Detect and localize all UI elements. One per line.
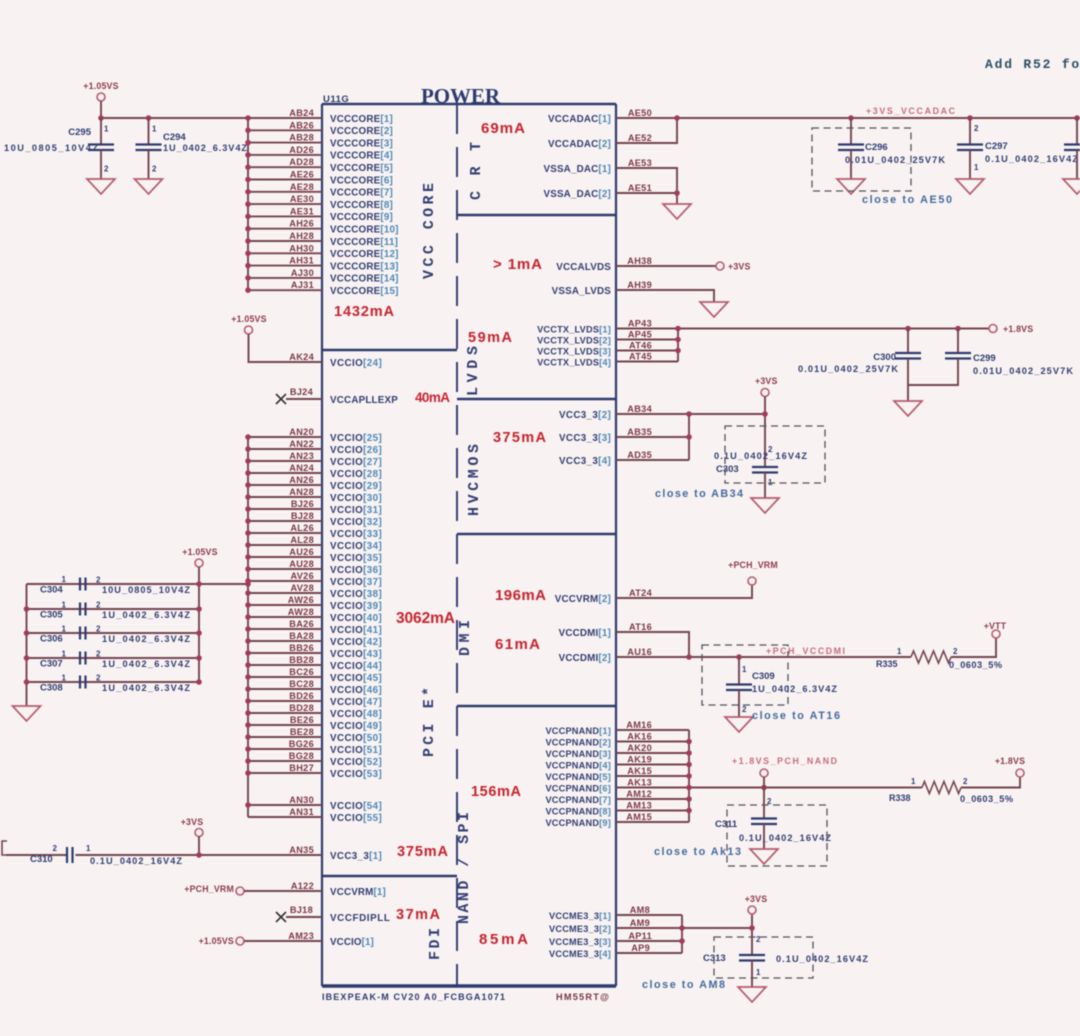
svg-text:2: 2 [53,844,58,853]
svg-text:1: 1 [756,968,761,977]
svg-text:> 1mA: > 1mA [493,256,542,273]
svg-text:VCCCORE[13]: VCCCORE[13] [330,261,399,272]
svg-text:LVDS: LVDS [465,346,482,396]
svg-text:BE28: BE28 [290,727,314,737]
svg-text:1: 1 [62,674,67,683]
svg-text:VCCADAC[1]: VCCADAC[1] [548,114,611,125]
svg-text:VCC CORE: VCC CORE [421,183,438,279]
capacitor C296 [838,118,945,179]
svg-text:BB26: BB26 [289,643,314,653]
wire net +1.8VS_PCH_NAND [616,730,1020,822]
svg-text:BA26: BA26 [289,619,314,629]
svg-text:0.1U_0402_16V4Z: 0.1U_0402_16V4Z [985,154,1078,164]
power +PCH_VRM (VCCVRM2) [728,560,778,585]
svg-text:VCCIO[46]: VCCIO[46] [330,685,382,696]
svg-text:VCCIO[29]: VCCIO[29] [330,481,382,492]
svg-text:AE50: AE50 [628,108,652,118]
power +3VS (HVCMOS) [755,376,778,397]
note close to AB34 [655,488,743,500]
svg-text:2: 2 [96,674,101,683]
wire VSSA_LVDS to ground [616,290,714,302]
U11G pins VCCIO[25..55] [330,433,382,824]
svg-text:0.1U_0402_16V4Z: 0.1U_0402_16V4Z [714,451,807,461]
svg-text:+1.8VS: +1.8VS [995,756,1025,766]
pin name AE51 [628,183,652,193]
svg-text:AH30: AH30 [289,243,314,253]
svg-text:AH38: AH38 [627,256,652,266]
current label 375mA [397,844,449,860]
svg-text:0.01U_0402_25V7K: 0.01U_0402_25V7K [973,366,1073,376]
svg-text:AN31: AN31 [289,807,314,817]
junction [674,190,680,196]
power +1.05VS (VCCIO24) [231,314,266,334]
svg-text:+1.8VS_PCH_NAND: +1.8VS_PCH_NAND [732,756,837,766]
svg-text:85mA: 85mA [479,931,528,948]
U11G pin BJ18 VCCFDIPLL [290,905,390,924]
svg-text:BA28: BA28 [289,631,314,641]
svg-text:R338: R338 [889,793,911,803]
svg-text:+3VS: +3VS [728,262,751,272]
svg-text:BH27: BH27 [289,763,314,773]
svg-text:C309: C309 [752,671,775,682]
svg-text:VCCIO[24]: VCCIO[24] [330,358,382,369]
wire +1.05VS to AM23 [244,940,322,942]
svg-text:VCCIO[31]: VCCIO[31] [330,505,382,516]
svg-text:VCCIO[55]: VCCIO[55] [330,813,382,824]
ground [135,179,163,194]
svg-text:BC28: BC28 [289,679,314,689]
svg-text:37mA: 37mA [396,907,441,923]
svg-text:VCCCORE[12]: VCCCORE[12] [330,249,399,260]
svg-text:C295: C295 [68,127,91,138]
svg-text:BB28: BB28 [289,655,314,665]
svg-text:AH39: AH39 [627,280,652,290]
svg-text:1: 1 [62,650,67,659]
svg-text:AK15: AK15 [627,766,652,776]
U11G reference designator [323,94,349,105]
svg-text:AD35: AD35 [627,450,652,460]
svg-text:VCCPNAND[2]: VCCPNAND[2] [545,737,611,747]
placement box close to AT16 [702,645,788,705]
svg-text:1U_0402_6.3V4Z: 1U_0402_6.3V4Z [752,684,837,694]
pin name AU16 [627,647,652,657]
svg-text:VCCIO[1]: VCCIO[1] [330,937,374,948]
wire +3VS to AN35 [6,837,322,856]
U11G pin AM23 VCCIO[1] [288,931,374,948]
svg-text:AM15: AM15 [626,812,652,822]
svg-text:10U_0805_10V4Z: 10U_0805_10V4Z [4,143,98,153]
note close to AE50 [862,194,952,206]
svg-text:VCCIO[25]: VCCIO[25] [330,433,382,444]
svg-text:AP43: AP43 [628,319,652,329]
svg-text:AE53: AE53 [628,158,652,168]
svg-text:AN20: AN20 [289,427,314,437]
svg-text:AN23: AN23 [289,451,314,461]
U11G pin AK24 VCCIO[24] [289,352,382,369]
svg-text:AN30: AN30 [289,795,314,805]
svg-text:1U_0402_6.3V4Z: 1U_0402_6.3V4Z [102,634,190,644]
svg-text:VCCIO[34]: VCCIO[34] [330,541,382,552]
pin name AD35 [627,450,652,460]
power +PCH_VRM (VCCVRM1) [184,884,244,895]
svg-text:VCCIO[30]: VCCIO[30] [330,493,382,504]
junction dots VCCME bus [679,925,755,944]
svg-text:C294: C294 [163,132,186,143]
svg-text:BD26: BD26 [289,691,314,701]
svg-text:+PCH_VRM: +PCH_VRM [184,884,234,894]
section label CRT [468,142,485,200]
svg-text:AK24: AK24 [289,352,314,362]
U11G pin VSSA_LVDS [552,286,612,297]
U11G pins VCC3_3[2..4] [559,410,611,467]
section label PCI E* [421,687,438,757]
svg-text:AE30: AE30 [290,194,314,204]
capacitor C298 (edge) [1064,118,1080,179]
power +1.8VS (PCH NAND) [995,756,1025,777]
svg-text:VCCIO[37]: VCCIO[37] [330,577,382,588]
current label 1432mA [334,304,395,320]
svg-text:+3VS_VCCADAC: +3VS_VCCADAC [866,106,956,116]
ground [738,987,766,1002]
svg-text:VCCADAC[2]: VCCADAC[2] [548,139,611,150]
no-connect X at BJ24 [276,394,322,404]
svg-text:AP9: AP9 [631,943,650,953]
svg-text:VCCIO[43]: VCCIO[43] [330,649,382,660]
power +1.05VS (cap bank) [182,547,217,567]
capacitor C304 [40,575,190,596]
pin name AM9 [630,918,650,928]
svg-text:AT45: AT45 [629,352,652,362]
svg-text:AV28: AV28 [291,583,315,593]
svg-text:C308: C308 [40,683,63,694]
capacitor C294 [136,115,248,179]
capacitor C310 [30,844,182,866]
svg-text:2: 2 [742,705,747,714]
capacitor C307 [40,650,190,670]
power +VTT [984,621,1007,638]
svg-text:+3VS: +3VS [181,817,204,827]
svg-text:VCCME3_3[4]: VCCME3_3[4] [549,949,611,959]
svg-text:VCCME3_3[1]: VCCME3_3[1] [549,911,611,921]
placement box close to Ak13 [727,805,827,866]
edge connector stub [2,841,7,855]
svg-text:AL28: AL28 [290,535,314,545]
resistor R335 [876,647,1002,670]
current label 69mA [481,120,525,137]
svg-text:2: 2 [96,576,101,585]
U11G pin VCCALVDS [556,262,611,273]
svg-text:C303: C303 [716,464,739,475]
svg-text:AM9: AM9 [630,918,650,928]
svg-text:AM13: AM13 [626,801,652,811]
svg-text:2: 2 [152,165,157,174]
wire +1.05VS to VCCCORE pins [101,101,322,118]
U11G VCCCORE pin names [289,108,314,290]
svg-text:BJ24: BJ24 [290,387,314,397]
svg-text:59mA: 59mA [468,330,513,346]
svg-text:BD28: BD28 [289,703,314,713]
svg-text:VCCIO[32]: VCCIO[32] [330,517,382,528]
svg-text:AH31: AH31 [289,256,314,266]
svg-text:DMI: DMI [457,620,474,656]
svg-text:VCCIO[47]: VCCIO[47] [330,697,382,708]
svg-text:VCC3_3[3]: VCC3_3[3] [559,433,611,444]
svg-text:Add R52 fo: Add R52 fo [985,57,1080,72]
node +3VS_VCCADAC [866,106,956,116]
U11G VCCPNAND pin names [626,720,652,822]
svg-text:PCI E*: PCI E* [421,687,438,757]
svg-text:BJ18: BJ18 [290,905,313,915]
capacitor C300 [798,329,921,402]
svg-text:VCC3_3[2]: VCC3_3[2] [559,410,611,421]
svg-text:VCCDMI[1]: VCCDMI[1] [559,628,611,639]
wire net +3VS ME [616,914,752,955]
svg-text:1: 1 [62,625,67,634]
svg-text:VCCCORE[11]: VCCCORE[11] [330,237,398,248]
pin name AP45 [628,330,652,340]
svg-text:BJ26: BJ26 [291,499,314,509]
ground [750,849,778,864]
section label VCC CORE [421,183,438,279]
svg-text:AT24: AT24 [629,588,653,598]
svg-text:VCCCORE[4]: VCCCORE[4] [330,151,393,162]
svg-text:BC26: BC26 [289,667,314,677]
svg-text:VCCPNAND[5]: VCCPNAND[5] [545,772,611,782]
svg-text:VCCIO[54]: VCCIO[54] [330,801,382,812]
junction [196,852,202,858]
pin name AH38 [627,256,652,266]
wire +3VS to VCC3_3 pins [616,397,765,468]
svg-text:0_0603_5%: 0_0603_5% [960,794,1013,804]
wire net +PCH_VCCDMI [616,632,996,657]
svg-text:BJ28: BJ28 [291,511,314,521]
svg-text:VCCME3_3[2]: VCCME3_3[2] [549,924,611,934]
svg-text:VCCTX_LVDS[2]: VCCTX_LVDS[2] [537,335,611,345]
svg-text:VCCCORE[10]: VCCCORE[10] [330,225,399,236]
svg-text:AW28: AW28 [288,607,314,617]
svg-text:1: 1 [86,844,91,853]
svg-text:2: 2 [974,124,979,133]
svg-text:VCCIO[41]: VCCIO[41] [330,625,382,636]
pin name AP11 [628,931,652,941]
svg-text:2: 2 [963,777,968,786]
svg-text:VCCCORE[8]: VCCCORE[8] [330,200,393,211]
U11G pins VCCADAC [548,114,611,150]
current label 61mA [495,636,540,653]
svg-text:BE26: BE26 [290,715,314,725]
svg-text:+3VS: +3VS [755,376,778,386]
U11G VCCIO pin names [288,427,315,817]
power +3VS (VCC3_3[1]) [181,817,204,837]
svg-text:VCCPNAND[9]: VCCPNAND[9] [545,818,611,828]
svg-text:AN22: AN22 [289,439,314,449]
svg-text:VCCVRM[2]: VCCVRM[2] [555,594,611,605]
capacitor C303 [714,445,807,498]
svg-text:3062mA: 3062mA [396,610,455,627]
svg-text:AB26: AB26 [289,120,314,130]
U11G pins VCCDMI [559,628,611,664]
svg-text:1U_0402_6.3V4Z: 1U_0402_6.3V4Z [102,683,190,693]
junction dots VCCDMI [686,654,742,660]
svg-text:0.01U_0402_25V7K: 0.01U_0402_25V7K [798,364,898,374]
svg-text:C300: C300 [873,352,896,363]
junction dots LVDS bus [675,326,961,354]
svg-text:C310: C310 [30,854,53,865]
svg-text:VCCIO[36]: VCCIO[36] [330,565,382,576]
svg-text:AU16: AU16 [627,647,652,657]
svg-text:375mA: 375mA [397,844,449,860]
svg-text:VCCCORE[6]: VCCCORE[6] [330,175,393,186]
ground [700,302,728,317]
wire cap bank bus [27,567,249,706]
svg-text:C299: C299 [973,353,996,364]
wire AT24 to +PCH_VRM [616,585,752,598]
junction dots VCCIO bus [245,434,251,808]
svg-text:1U_0402_6.3V4Z: 1U_0402_6.3V4Z [102,610,190,620]
ground [837,179,865,194]
svg-text:1: 1 [104,125,109,134]
svg-text:VCCIO[26]: VCCIO[26] [330,445,382,456]
svg-text:AW26: AW26 [288,595,314,605]
svg-text:+3VS: +3VS [745,894,768,904]
pin name AB35 [627,427,652,437]
pin name AE53 [628,158,652,168]
ground [663,204,691,219]
svg-text:AB34: AB34 [627,404,652,414]
svg-text:POWER: POWER [421,84,501,108]
svg-text:1: 1 [62,575,67,584]
pin name AH39 [627,280,652,290]
svg-text:VCCME3_3[3]: VCCME3_3[3] [549,937,611,947]
current label 3062mA [396,610,455,627]
svg-text:VCCIO[51]: VCCIO[51] [330,745,382,756]
node +1.8VS_PCH_NAND [732,756,837,766]
section label NAND / SPI [456,812,473,924]
capacitor C308 [40,674,190,694]
pin name AP43 [628,319,652,329]
svg-text:VCCCORE[14]: VCCCORE[14] [330,274,399,285]
svg-text:C296: C296 [865,142,888,153]
power +3VS (VCCALVDS) [716,262,751,272]
svg-text:VCCIO[44]: VCCIO[44] [330,661,382,672]
ground [751,498,779,513]
svg-text:R335: R335 [876,659,898,669]
svg-text:AL26: AL26 [290,523,314,533]
svg-text:VCCIO[52]: VCCIO[52] [330,757,382,768]
capacitor C309 [726,657,837,717]
svg-text:VCCCORE[9]: VCCCORE[9] [330,212,393,223]
svg-text:close to AB34: close to AB34 [655,488,743,500]
svg-text:A122: A122 [291,881,314,891]
svg-text:+1.05VS: +1.05VS [199,936,234,946]
wire VSSA_DAC to ground [616,168,677,204]
svg-text:+1.05VS: +1.05VS [231,314,266,324]
svg-text:AJ31: AJ31 [291,280,314,290]
svg-text:+VTT: +VTT [984,621,1007,631]
svg-text:VCC3_3[1]: VCC3_3[1] [330,851,382,862]
svg-text:0.1U_0402_16V4Z: 0.1U_0402_16V4Z [90,856,182,866]
placement box close to AM8 [714,937,813,978]
svg-text:VCCPNAND[3]: VCCPNAND[3] [545,749,611,759]
svg-text:AV26: AV26 [291,571,315,581]
svg-text:1: 1 [974,163,979,172]
ground [1063,179,1080,194]
svg-text:VCCVRM[1]: VCCVRM[1] [330,887,386,898]
wire VCCCORE pin bus [248,118,322,290]
svg-text:AN26: AN26 [289,475,314,485]
current label 375mA [493,430,547,446]
node +PCH_VCCDMI [766,646,845,656]
svg-text:AP45: AP45 [628,330,652,340]
svg-text:2: 2 [96,625,101,634]
junction dots +3VS_VCCADAC [674,115,1080,121]
svg-text:1: 1 [152,125,157,134]
svg-text:C307: C307 [40,659,63,670]
svg-text:VCCIO[49]: VCCIO[49] [330,721,382,732]
section label FDI [427,928,444,960]
svg-text:AE52: AE52 [628,133,652,143]
current label 196mA [495,587,546,604]
svg-text:AU26: AU26 [289,547,314,557]
svg-text:BG28: BG28 [289,751,314,761]
capacitor C311 [715,788,831,850]
svg-text:VCC3_3[4]: VCC3_3[4] [559,456,611,467]
svg-text:VCCALVDS: VCCALVDS [556,262,611,273]
svg-text:AT16: AT16 [629,622,652,632]
pin name AE50 [628,108,652,118]
svg-text:+1.05VS: +1.05VS [83,81,118,91]
svg-text:61mA: 61mA [495,636,540,653]
svg-text:VCCPNAND[1]: VCCPNAND[1] [545,726,611,736]
U11G pin VCCVRM[2] [555,594,611,605]
svg-text:VCCFDIPLL: VCCFDIPLL [330,913,390,924]
svg-text:AK19: AK19 [627,755,652,765]
IC U11G chip body IBEXPEAK-M HM55 [322,104,616,986]
svg-text:AE28: AE28 [290,182,314,192]
U11G pins VSSA_DAC [543,164,611,200]
wire +1.05VS to AK24 [249,334,323,362]
svg-text:69mA: 69mA [481,120,525,137]
ground [956,179,984,194]
svg-text:VCCCORE[7]: VCCCORE[7] [330,188,393,199]
svg-text:NAND / SPI: NAND / SPI [456,812,473,924]
power circle +1.8VS_PCH_NAND [760,769,768,788]
capacitor C297 [957,118,1078,179]
svg-text:196mA: 196mA [495,587,546,604]
svg-text:AH28: AH28 [289,231,314,241]
svg-text:+PCH_VRM: +PCH_VRM [728,560,778,570]
svg-text:VCCCORE[5]: VCCCORE[5] [330,163,393,174]
capacitor C313 [703,935,868,987]
svg-text:VCCIO[38]: VCCIO[38] [330,589,382,600]
svg-text:VCCPNAND[7]: VCCPNAND[7] [545,795,611,805]
svg-text:AE51: AE51 [628,183,652,193]
svg-text:VCCIO[33]: VCCIO[33] [330,529,382,540]
svg-text:+PCH_VCCDMI: +PCH_VCCDMI [766,646,845,656]
ground [87,179,115,194]
wire VCCIO pin bus [248,437,322,817]
svg-text:0.1U_0402_16V4Z: 0.1U_0402_16V4Z [776,954,868,964]
svg-text:1: 1 [62,601,67,610]
note close to Ak13 [654,846,741,858]
svg-text:AB28: AB28 [289,133,314,143]
svg-text:156mA: 156mA [471,784,522,800]
svg-text:VCCTX_LVDS[4]: VCCTX_LVDS[4] [537,357,611,367]
power +1.05VS (VCCCORE) [83,81,118,101]
svg-text:C306: C306 [40,634,63,645]
note close to AT16 [752,710,840,722]
junction dots VCCPNAND bus [686,739,767,814]
